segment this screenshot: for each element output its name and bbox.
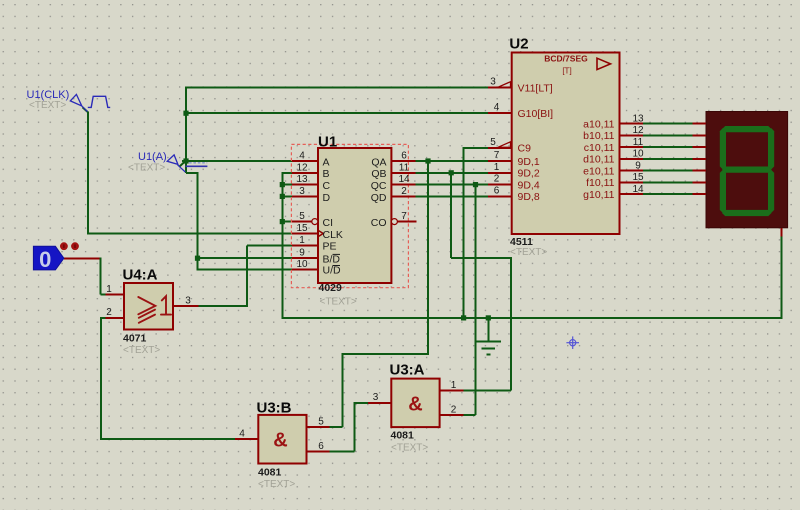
svg-text:U3:B: U3:B [257, 400, 292, 417]
svg-text:a10,11: a10,11 [583, 118, 614, 130]
wire vertical x=282.3 from B row down to long ground rail [281, 172, 283, 318]
svg-text:9D,4: 9D,4 [518, 179, 540, 191]
logic state input 0 [33, 242, 79, 271]
svg-text:11: 11 [399, 162, 410, 173]
node B/D tap [195, 256, 200, 261]
svg-text:2: 2 [494, 174, 500, 185]
AND gate U3:A 4081 [368, 362, 464, 454]
node D tap [280, 194, 285, 199]
svg-text:QC: QC [371, 180, 387, 192]
wire vertical bus x=186 from V11 row down to jog [185, 87, 187, 173]
7-segment display [693, 112, 788, 237]
wire U1(CLK) terminal to U1 CLK pin [83, 107, 292, 233]
wire QA feedback down [329, 161, 429, 427]
svg-text:D: D [323, 192, 331, 204]
svg-text:C: C [323, 180, 331, 192]
node QA tap [425, 158, 430, 163]
svg-text:<TEXT>: <TEXT> [320, 297, 357, 308]
svg-text:<TEXT>: <TEXT> [123, 345, 160, 356]
wire D row stub link [282, 195, 292, 197]
svg-text:9D,2: 9D,2 [518, 168, 540, 180]
svg-text:[T]: [T] [562, 67, 571, 76]
U1 CI input bubble [312, 219, 318, 225]
svg-text:2: 2 [451, 405, 457, 416]
wire CI row stub link [282, 221, 292, 223]
node QC tap [473, 182, 478, 187]
svg-text:<TEXT>: <TEXT> [258, 479, 295, 490]
svg-text:10: 10 [296, 259, 308, 270]
svg-text:1: 1 [106, 284, 112, 295]
U1 pin names [323, 156, 343, 276]
wire U4:A output to U1 PE [198, 245, 291, 307]
wire B row stub link [282, 172, 292, 174]
svg-text:14: 14 [632, 184, 644, 195]
wire B/D row to U1 pin 9 [198, 257, 292, 259]
svg-text:6: 6 [401, 151, 407, 162]
wire C row stub link [282, 184, 292, 186]
svg-text:QD: QD [371, 192, 387, 204]
U1 overbars on B/D and U/D [333, 254, 341, 265]
wire QB feedback to U3:A pin 1 [451, 173, 511, 391]
wire long ground rail y=317.9 to display common [281, 317, 781, 319]
svg-text:4071: 4071 [123, 333, 147, 345]
wire display segment rows a-g [643, 124, 692, 195]
node G10 tap on bus [183, 111, 188, 116]
svg-text:11: 11 [633, 137, 644, 148]
svg-text:c10,11: c10,11 [584, 142, 615, 154]
wire U/D row to U1 pin 10 [197, 268, 292, 270]
wire logic 0 terminal to U4:A pin 1 [64, 258, 106, 295]
svg-text:9D,1: 9D,1 [518, 156, 540, 168]
wire QB row U1 pin 11 to U2 pin 1 [415, 172, 488, 174]
svg-text:13: 13 [632, 113, 644, 124]
wire display common vertical [780, 236, 782, 319]
svg-text:G10[BI]: G10[BI] [518, 108, 554, 120]
svg-text:4081: 4081 [391, 430, 415, 442]
svg-text:4: 4 [299, 151, 305, 162]
node A terminal junction [183, 158, 188, 163]
U1 pin numbers [296, 151, 410, 270]
terminal U1(CLK) [27, 89, 111, 112]
node QB tap [449, 170, 454, 175]
origin marker crosshair [566, 336, 579, 349]
node ground stem on rail [486, 315, 491, 320]
svg-text:9D,8: 9D,8 [518, 191, 540, 203]
svg-text:3: 3 [185, 296, 191, 307]
wire U3:A output to U3:B pin 6 [329, 402, 368, 452]
svg-text:6: 6 [318, 441, 324, 452]
wire U1(A) terminal to U1 pin A [180, 161, 292, 167]
svg-text:B: B [323, 168, 330, 180]
svg-text:12: 12 [296, 162, 308, 173]
svg-text:<TEXT>: <TEXT> [391, 443, 428, 454]
svg-text:1: 1 [299, 235, 305, 246]
svg-text:f10,11: f10,11 [586, 177, 615, 189]
svg-text:4029: 4029 [319, 282, 343, 294]
svg-text:U2: U2 [509, 36, 528, 53]
U2 left pin stubs [488, 88, 512, 197]
svg-text:2: 2 [401, 186, 407, 197]
ground [476, 318, 501, 355]
svg-text:15: 15 [632, 172, 644, 183]
svg-text:&: & [408, 394, 422, 416]
svg-text:U/D: U/D [323, 265, 342, 277]
svg-text:7: 7 [494, 150, 500, 161]
svg-text:14: 14 [398, 174, 410, 185]
decoder U2 4511 [488, 36, 644, 259]
svg-text:QA: QA [371, 156, 386, 168]
svg-text:QB: QB [371, 168, 386, 180]
wire QD row U1 pin 2 to U2 pin 6 [415, 195, 488, 197]
svg-text:15: 15 [296, 223, 308, 234]
U2 pin 5 clock flag [498, 142, 511, 148]
U1 left pin stubs [292, 161, 318, 269]
svg-text:9: 9 [299, 248, 305, 259]
wire vertical x=197.5 down to U/D row [197, 172, 199, 269]
U2 logic triangle symbol [597, 58, 611, 69]
U2 pin names [518, 83, 554, 204]
svg-text:U1: U1 [318, 134, 337, 151]
svg-text:5: 5 [490, 137, 496, 148]
svg-text:&: & [273, 430, 287, 452]
svg-text:9: 9 [635, 160, 641, 171]
svg-text:<TEXT>: <TEXT> [510, 247, 547, 258]
svg-text:CO: CO [371, 217, 387, 229]
svg-text:3: 3 [490, 77, 496, 88]
wire V11[LT] row from vertical bus to U2 pin 3 [185, 87, 488, 89]
svg-text:5: 5 [299, 211, 305, 222]
svg-text:0: 0 [39, 247, 51, 272]
OR gate U4:A 4071 [106, 267, 199, 357]
svg-text:13: 13 [296, 174, 308, 185]
svg-text:U1(A): U1(A) [138, 151, 167, 163]
svg-text:3: 3 [373, 392, 379, 403]
wire QC feedback to U3:A pin 2 [464, 185, 476, 415]
U2 pin 3 clock flag [498, 82, 511, 88]
svg-text:e10,11: e10,11 [583, 165, 614, 177]
node C tap [280, 182, 285, 187]
wire C9 horizontal from vertical to U2 pin 5 [464, 147, 488, 149]
svg-text:g10,11: g10,11 [583, 189, 614, 201]
svg-text:1: 1 [494, 162, 500, 173]
svg-text:4081: 4081 [258, 467, 282, 479]
svg-text:CI: CI [323, 217, 334, 229]
svg-text:3: 3 [299, 186, 305, 197]
svg-text:A: A [323, 156, 330, 168]
clock waveform glyph [88, 96, 110, 107]
U1 CLK edge marker [318, 230, 323, 237]
U2 right pin stubs [620, 124, 644, 195]
svg-text:12: 12 [632, 125, 644, 136]
svg-text:<TEXT>: <TEXT> [128, 163, 165, 174]
wire QC row U1 pin 14 to U2 pin 2 [415, 184, 488, 186]
wire jog from A-bus to second vertical [186, 172, 198, 174]
svg-text:d10,11: d10,11 [583, 154, 614, 166]
wire QA row U1 pin 6 to U2 pin 7 [415, 160, 488, 162]
wire C9 vertical down to ground rail [463, 147, 465, 318]
display common pin stub [780, 228, 782, 237]
svg-text:7: 7 [401, 211, 407, 222]
AND gate U3:B 4081 [235, 400, 330, 491]
svg-text:PE: PE [323, 241, 337, 253]
svg-text:4: 4 [494, 102, 500, 113]
wire U3:B output to U4:A pin 2 [101, 317, 235, 440]
node CI tap [280, 219, 285, 224]
U2 pin numbers [490, 77, 644, 197]
counter U1 4029 [291, 134, 416, 308]
display segments digit 8 [720, 126, 774, 216]
U1 right pin stubs [391, 161, 416, 222]
display left pin stubs [693, 124, 782, 237]
svg-text:U4:A: U4:A [123, 267, 158, 284]
svg-text:CLK: CLK [323, 229, 343, 241]
svg-text:2: 2 [106, 307, 112, 318]
svg-text:U3:A: U3:A [390, 362, 425, 379]
terminal U1(A) [128, 151, 207, 174]
svg-text:5: 5 [318, 417, 324, 428]
svg-text:6: 6 [494, 185, 500, 196]
svg-text:10: 10 [632, 149, 644, 160]
node C9 on ground rail [461, 315, 466, 320]
svg-text:4: 4 [239, 429, 245, 440]
svg-text:C9: C9 [518, 143, 532, 155]
svg-text:1: 1 [451, 380, 457, 391]
wire G10[BI] row from bus to U2 pin 4 [185, 112, 488, 114]
svg-text:b10,11: b10,11 [583, 130, 614, 142]
svg-text:<TEXT>: <TEXT> [29, 100, 66, 111]
U1 CO output bubble [391, 219, 397, 225]
svg-text:BCD/7SEG: BCD/7SEG [544, 54, 588, 64]
svg-text:V11[LT]: V11[LT] [518, 83, 553, 95]
